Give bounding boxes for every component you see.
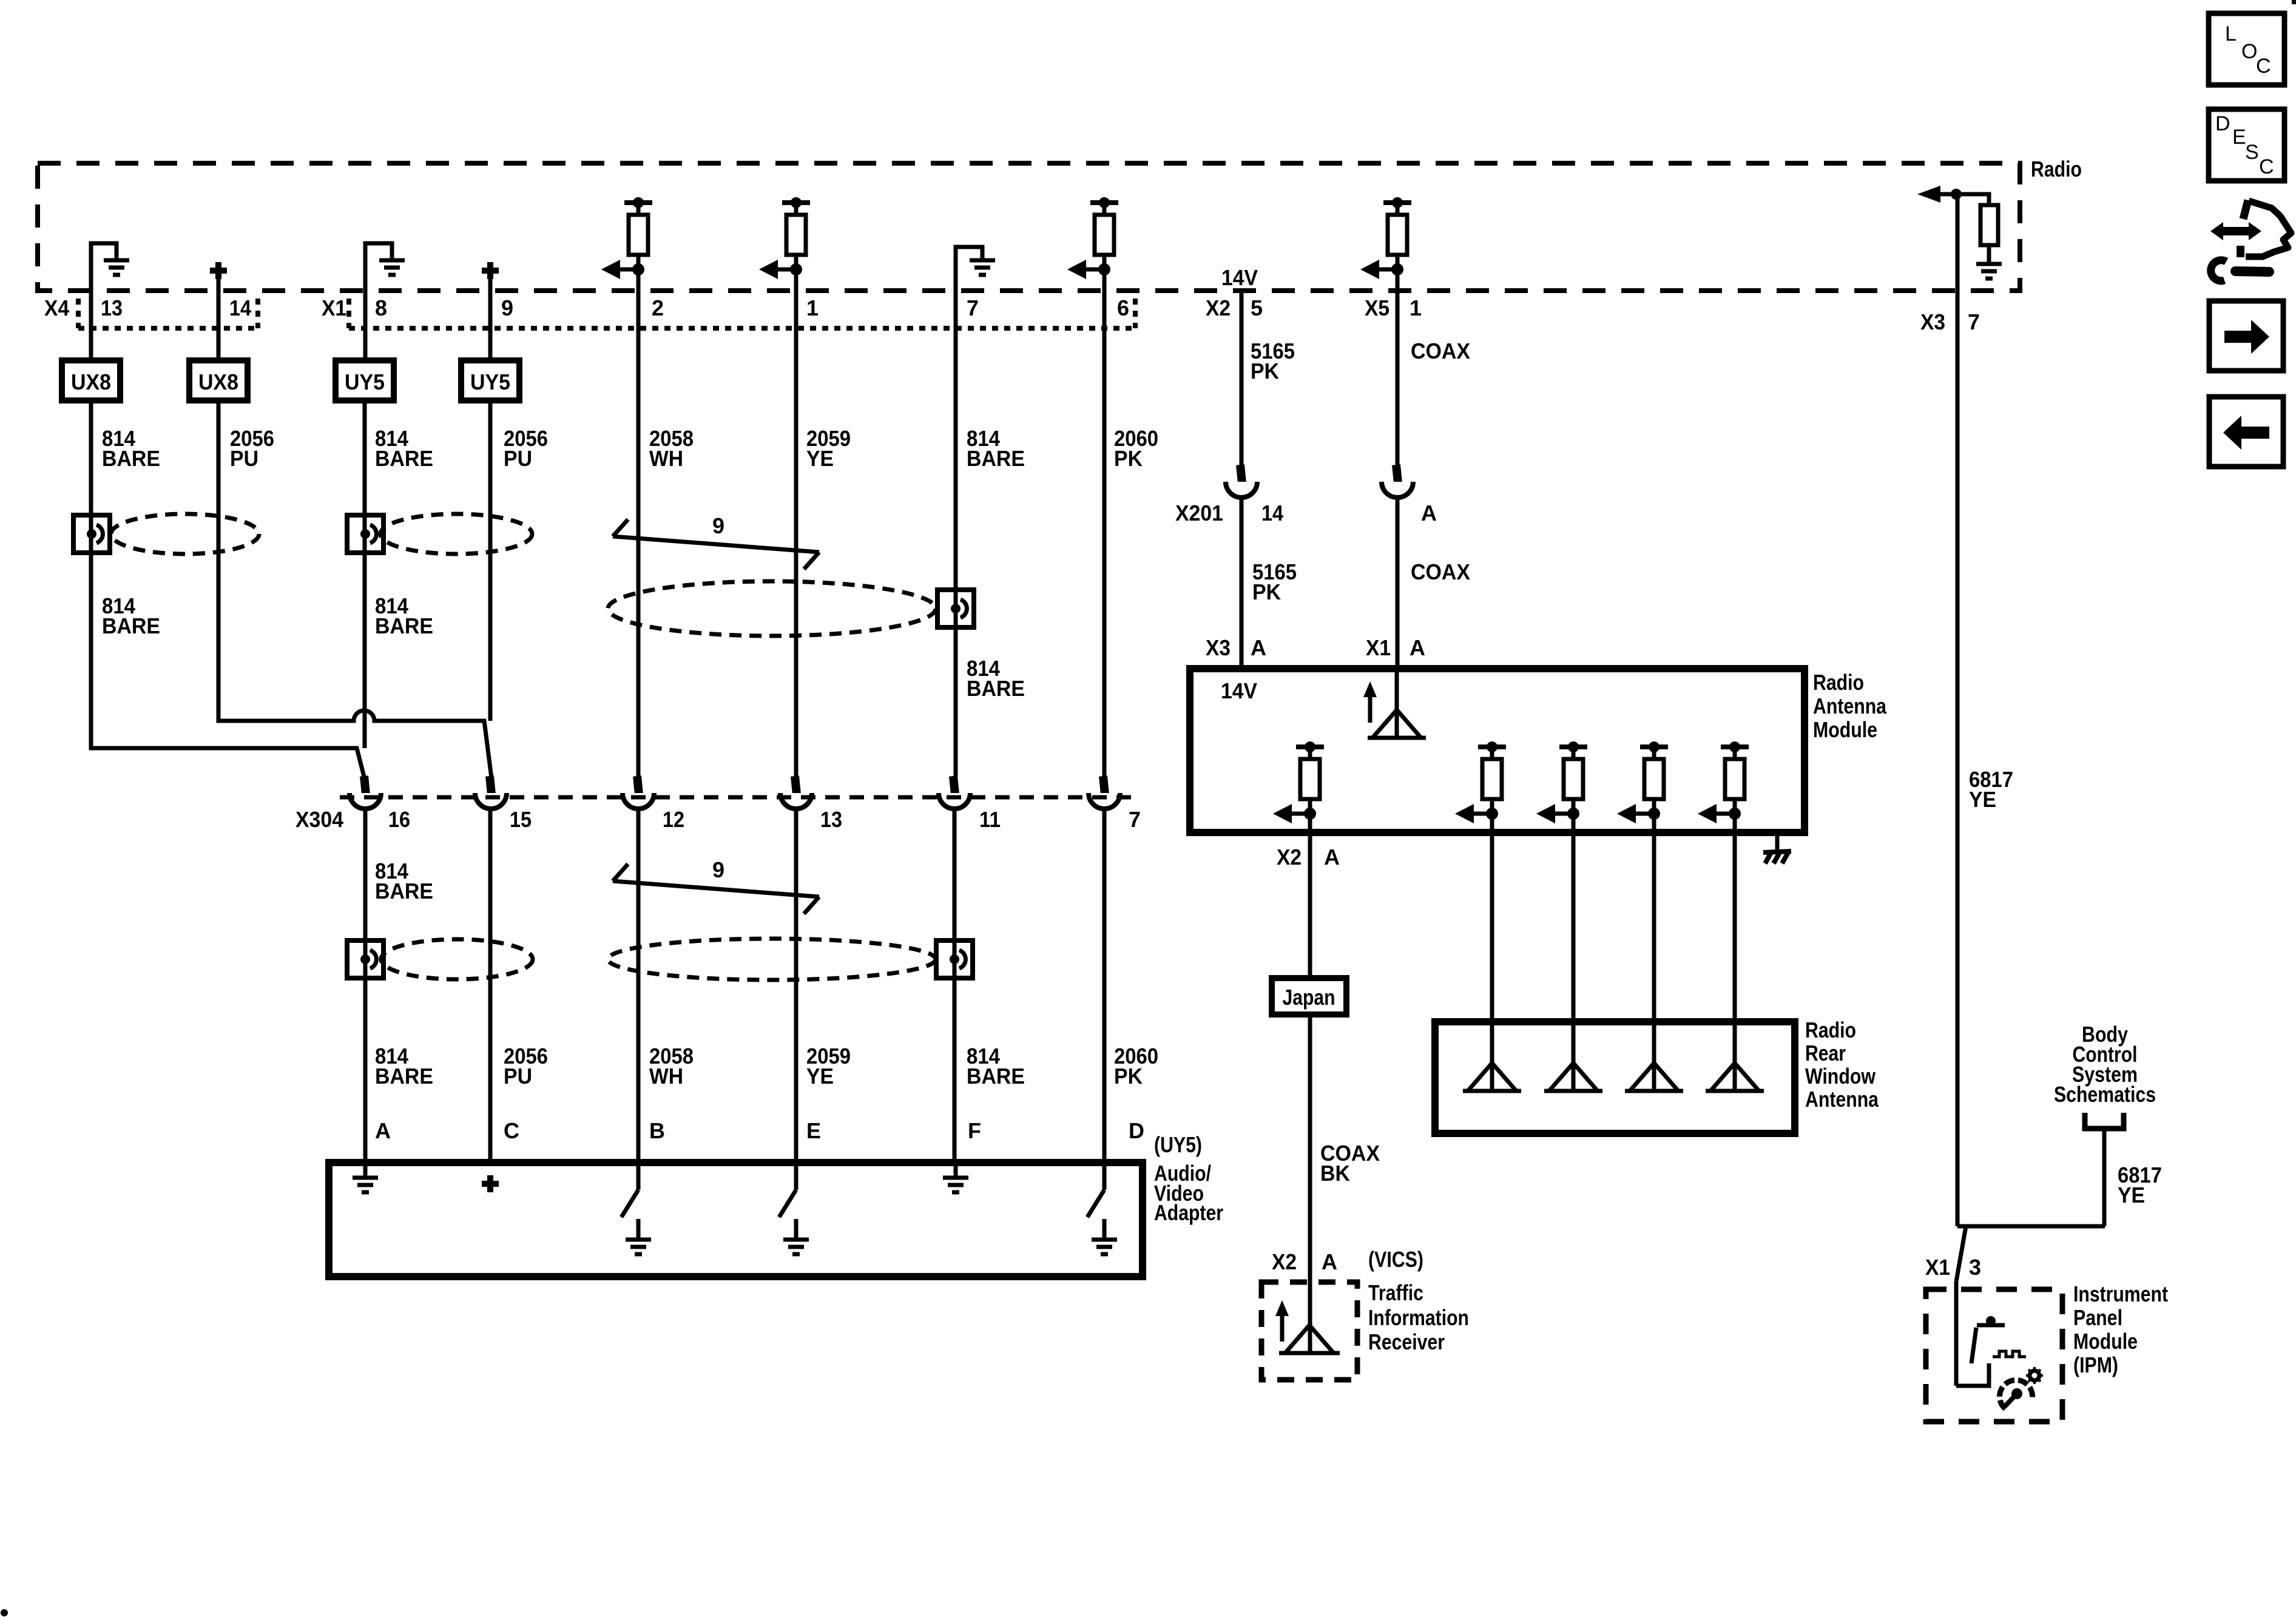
svg-text:PK: PK	[1114, 446, 1143, 471]
svg-text:BARE: BARE	[102, 613, 160, 638]
svg-text:WH: WH	[649, 446, 683, 471]
svg-text:14: 14	[229, 295, 251, 320]
svg-text:UY5: UY5	[470, 370, 510, 394]
svg-text:BARE: BARE	[375, 446, 433, 471]
svg-text:A: A	[1324, 845, 1340, 869]
svg-text:E: E	[806, 1118, 821, 1143]
svg-text:9: 9	[712, 857, 724, 882]
svg-text:X3: X3	[1206, 635, 1231, 660]
svg-text:X201: X201	[1175, 501, 1223, 525]
svg-text:Instrument: Instrument	[2073, 1281, 2168, 1306]
svg-text:BK: BK	[1320, 1161, 1350, 1186]
svg-text:7: 7	[967, 295, 979, 320]
svg-text:YE: YE	[1969, 787, 1996, 812]
svg-text:Traffic: Traffic	[1368, 1280, 1423, 1305]
svg-text:(UY5): (UY5)	[1154, 1132, 1202, 1157]
svg-text:UY5: UY5	[345, 370, 385, 394]
svg-text:A: A	[1322, 1249, 1337, 1274]
svg-text:Antenna: Antenna	[1813, 694, 1887, 718]
svg-text:PK: PK	[1252, 579, 1281, 604]
svg-text:BARE: BARE	[375, 879, 433, 903]
svg-text:YE: YE	[806, 1064, 834, 1089]
svg-text:BARE: BARE	[375, 613, 433, 638]
svg-text:16: 16	[388, 807, 410, 832]
svg-text:X4: X4	[44, 295, 69, 320]
svg-text:9: 9	[501, 295, 513, 320]
svg-text:13: 13	[101, 295, 123, 320]
svg-text:X1: X1	[1925, 1255, 1950, 1280]
svg-text:Japan: Japan	[1283, 985, 1335, 1010]
svg-text:12: 12	[663, 807, 684, 832]
svg-text:8: 8	[375, 295, 387, 320]
svg-text:2: 2	[652, 295, 664, 320]
svg-text:14V: 14V	[1221, 678, 1257, 703]
svg-text:D: D	[1129, 1118, 1144, 1143]
svg-text:BARE: BARE	[967, 676, 1025, 701]
svg-text:3: 3	[1969, 1255, 1981, 1280]
svg-text:A: A	[1421, 501, 1437, 525]
svg-text:Adapter: Adapter	[1154, 1200, 1223, 1225]
svg-text:L: L	[2225, 22, 2237, 46]
svg-text:PK: PK	[1251, 359, 1279, 383]
svg-text:C: C	[2256, 55, 2271, 78]
svg-text:5: 5	[1251, 295, 1263, 320]
svg-text:D: D	[2215, 112, 2230, 135]
svg-text:11: 11	[979, 807, 1001, 832]
svg-text:Window: Window	[1805, 1064, 1876, 1089]
svg-text:X304: X304	[295, 807, 343, 832]
svg-text:F: F	[968, 1118, 981, 1143]
svg-text:S: S	[2245, 141, 2259, 164]
svg-text:BARE: BARE	[375, 1064, 433, 1089]
svg-text:X2: X2	[1272, 1249, 1297, 1274]
svg-text:9: 9	[712, 513, 724, 538]
svg-text:BARE: BARE	[967, 446, 1025, 471]
svg-text:Receiver: Receiver	[1368, 1329, 1445, 1354]
svg-text:7: 7	[1968, 309, 1980, 334]
svg-text:Radio: Radio	[2031, 157, 2082, 181]
svg-text:1: 1	[1410, 295, 1422, 320]
svg-text:X5: X5	[1365, 295, 1389, 320]
svg-text:YE: YE	[2118, 1183, 2145, 1207]
svg-text:COAX: COAX	[1411, 339, 1470, 363]
svg-text:X3: X3	[1920, 309, 1945, 334]
svg-text:(VICS): (VICS)	[1368, 1247, 1423, 1272]
svg-text:B: B	[649, 1118, 665, 1143]
svg-text:7: 7	[1129, 807, 1141, 832]
svg-text:PK: PK	[1114, 1064, 1143, 1089]
svg-text:PU: PU	[504, 1064, 532, 1089]
svg-text:1: 1	[806, 295, 819, 320]
svg-text:PU: PU	[230, 446, 258, 471]
svg-text:14V: 14V	[1221, 265, 1258, 290]
svg-text:X1: X1	[322, 295, 346, 320]
svg-text:Module: Module	[1813, 717, 1877, 742]
svg-text:(IPM): (IPM)	[2073, 1352, 2118, 1377]
svg-text:O: O	[2241, 40, 2257, 63]
svg-text:YE: YE	[806, 446, 834, 471]
svg-text:X2: X2	[1277, 845, 1302, 869]
svg-text:Radio: Radio	[1805, 1018, 1856, 1042]
svg-text:A: A	[1410, 635, 1425, 660]
svg-text:UX8: UX8	[198, 370, 238, 394]
svg-text:Module: Module	[2073, 1329, 2138, 1354]
svg-text:UX8: UX8	[71, 370, 111, 394]
svg-text:WH: WH	[649, 1064, 683, 1089]
svg-text:A: A	[375, 1118, 391, 1143]
svg-text:Rear: Rear	[1805, 1041, 1846, 1065]
svg-text:Radio: Radio	[1813, 670, 1864, 695]
svg-text:Antenna: Antenna	[1805, 1087, 1879, 1112]
svg-text:C: C	[504, 1118, 519, 1143]
svg-text:15: 15	[510, 807, 532, 832]
svg-text:C: C	[2259, 155, 2274, 178]
svg-text:BARE: BARE	[102, 446, 160, 471]
svg-text:COAX: COAX	[1411, 559, 1470, 584]
svg-text:X1: X1	[1366, 635, 1391, 660]
svg-text:Information: Information	[1368, 1305, 1469, 1330]
svg-text:Panel: Panel	[2073, 1305, 2122, 1330]
svg-text:E: E	[2232, 126, 2246, 149]
svg-text:PU: PU	[504, 446, 532, 471]
svg-text:14: 14	[1261, 501, 1283, 525]
svg-text:Schematics: Schematics	[2054, 1082, 2156, 1107]
svg-text:X2: X2	[1206, 295, 1231, 320]
svg-text:BARE: BARE	[967, 1064, 1025, 1089]
svg-text:6: 6	[1117, 295, 1129, 320]
svg-text:A: A	[1251, 635, 1266, 660]
svg-text:13: 13	[820, 807, 842, 832]
